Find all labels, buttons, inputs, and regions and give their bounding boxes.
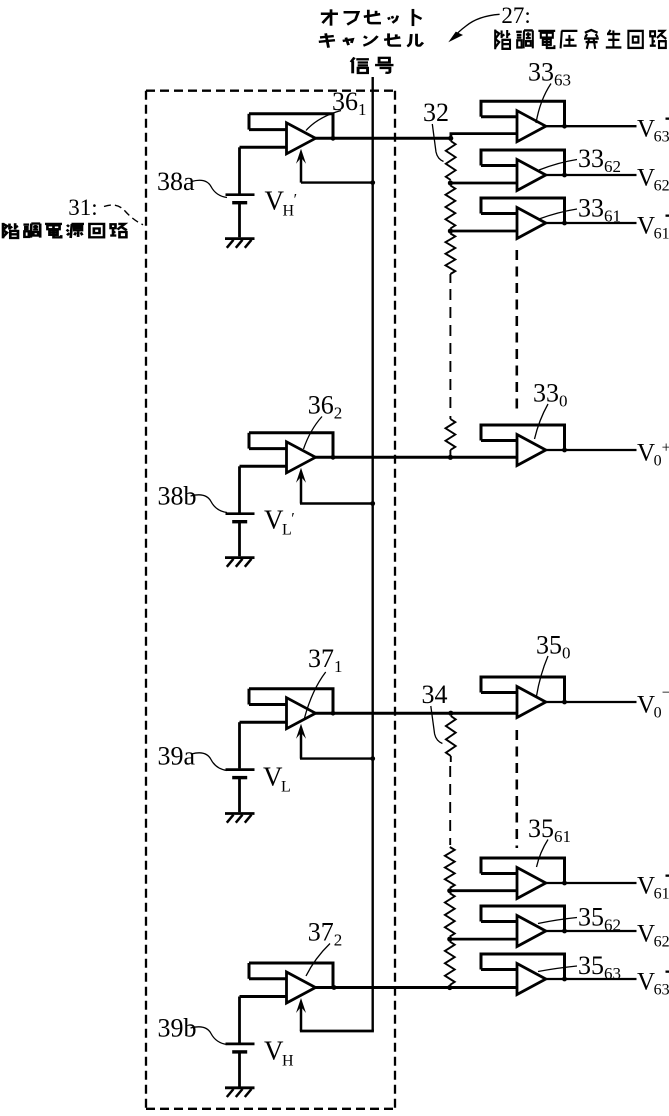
op-amp 37_2 feedback loop <box>249 963 335 988</box>
label: gradation power supply circuit heading <box>3 223 127 238</box>
wire: offset cancel feed to 37_2 (signal line end) <box>300 1030 374 1033</box>
svg-text:31:: 31: <box>68 195 97 220</box>
wire: buffer 33_62 output <box>546 174 637 176</box>
svg-text:38a: 38a <box>157 167 195 196</box>
resistor ladder 34: R below V0- <box>446 716 456 762</box>
svg-text:39a: 39a <box>158 742 196 771</box>
superscript stub at edge <box>666 875 669 877</box>
leader arrow from label 27 <box>448 14 499 42</box>
wire: buffer 35_61 output <box>546 882 637 884</box>
node: ladder 32 tap V61 <box>448 228 453 233</box>
wire: V_H' battery to op-amp input <box>240 147 287 193</box>
resistor ladder 34: R above V61- <box>445 847 455 888</box>
svg-text:34: 34 <box>422 680 448 709</box>
svg-text:27:: 27: <box>501 3 530 28</box>
node: buffer 33_61 feedback tap <box>562 221 567 226</box>
wire: buffer 35_62 output <box>546 930 637 932</box>
op-amp 37_1 triangle <box>287 698 316 729</box>
wire: offset cancel signal line <box>372 77 374 1031</box>
node: 37_2 feedback tap <box>332 985 337 990</box>
wire: ladder 32 tap to buffer 33_62 <box>450 182 517 185</box>
node: buffer 33_62 feedback tap <box>562 173 567 178</box>
buffer 35_62 triangle <box>517 916 546 947</box>
battery 39b (V_H) <box>226 1044 255 1087</box>
node: ladder 32 bottom on 36_2 output <box>448 455 453 460</box>
continuation dashes between 35_0 and 35_61 <box>515 730 518 848</box>
superscript stub at edge <box>666 215 669 217</box>
op-amp 36_2 feedback loop <box>249 433 335 458</box>
op-amp 36_1 triangle <box>287 123 316 154</box>
wire: V_H battery to op-amp input <box>240 997 287 1043</box>
wire: buffer 35_0 output <box>546 701 637 703</box>
leader 32 <box>432 124 443 162</box>
node: ladder 32 tap V62 <box>448 180 453 185</box>
wire: offset cancel feed to 37_1 <box>300 757 373 759</box>
wire: 36_1 output to ladder 32 <box>316 137 453 140</box>
wire: buffer 35_63 output <box>546 978 637 980</box>
svg-text:32: 32 <box>423 98 449 127</box>
resistor ladder 34: R (V62-V63) <box>445 942 455 985</box>
leader 35_63 <box>538 966 577 972</box>
leader 37_1 <box>305 672 326 718</box>
op-amp 36_1 offset-cancel arrow <box>296 149 306 183</box>
continuation dashes between 33_61 and 33_0 <box>515 250 518 410</box>
wire: ladder 32 tap to buffer 33_61 <box>450 230 517 233</box>
buffer 33_62 triangle <box>517 160 546 191</box>
ground (38b) <box>225 558 255 567</box>
buffer 33_63 feedback loop <box>480 101 567 126</box>
leader 33_0 <box>535 404 549 439</box>
op-amp 36_1 feedback loop <box>249 114 335 139</box>
ground (39b) <box>225 1088 255 1097</box>
wire: ladder 34 tap to buffer 35_61 <box>450 889 517 892</box>
leader 37_2 <box>306 944 330 977</box>
buffer 35_0 triangle <box>517 687 546 718</box>
superscript stub at edge <box>666 118 669 120</box>
node: buffer 33_63 feedback tap <box>562 124 567 129</box>
buffer 35_61 feedback loop <box>480 858 567 883</box>
op-amp 36_2 offset-cancel arrow <box>296 468 306 504</box>
leader 33_61 <box>539 209 577 219</box>
leader 35_61 <box>537 840 549 868</box>
node: 36_1 feedback tap <box>331 136 336 141</box>
leader 39b <box>191 1027 228 1045</box>
buffer 33_61 feedback loop <box>480 198 567 223</box>
leader 38b <box>191 495 228 513</box>
node: buffer 35_61 feedback tap <box>562 881 567 886</box>
node: 36_2 feedback tap <box>331 455 336 460</box>
buffer 33_0 feedback loop <box>480 425 567 450</box>
node: signal line junction (36_1) <box>370 180 375 185</box>
superscript stub at edge <box>666 971 669 973</box>
leader 33_62 <box>539 160 577 171</box>
node: buffer 35_0 feedback tap <box>562 700 567 705</box>
buffer 35_61 triangle <box>517 868 546 899</box>
leader 35_62 <box>538 918 577 924</box>
leader from label 31 to dashed box <box>104 205 143 225</box>
node: ladder 34 tap V62- <box>447 937 452 942</box>
resistor ladder 32: R below V61 <box>446 234 456 284</box>
node: buffer 35_63 feedback tap <box>562 977 567 982</box>
resistor ladder 32: R above V0+ <box>446 416 456 457</box>
buffer 33_0 triangle <box>517 435 546 466</box>
buffer 33_62 feedback loop <box>480 150 567 175</box>
wire: buffer 33_63 output <box>546 125 637 127</box>
wire: V_L' battery to op-amp input <box>240 466 287 512</box>
wire: V_L battery to op-amp input <box>240 722 287 768</box>
leader 38a <box>192 180 228 197</box>
op-amp 36_2 triangle <box>287 442 316 473</box>
resistor ladder 32: R top (V63-V62) <box>446 141 456 180</box>
wire: ladder 34 tap to buffer 35_62 <box>450 938 517 941</box>
node: ladder 34 bottom on 37_2 output <box>447 985 452 990</box>
wire: buffer 33_0 output <box>546 449 637 451</box>
buffer 35_0 feedback loop <box>480 677 567 702</box>
label: offset cancel line2 (kyanseru) <box>319 33 423 47</box>
ground (39a) <box>225 814 255 823</box>
dashed box: gradation power supply circuit 31 <box>146 91 395 1109</box>
battery 39a (V_L) <box>226 770 255 813</box>
buffer 33_63 triangle <box>517 111 546 142</box>
leader 33_63 <box>536 84 551 124</box>
node: buffer 35_62 feedback tap <box>562 929 567 934</box>
node: 37_1 feedback tap <box>331 711 336 716</box>
op-amp 37_2 triangle <box>287 972 316 1003</box>
buffer 33_61 triangle <box>517 208 546 239</box>
wire: offset cancel feed to 36_1 <box>301 181 373 183</box>
node: ladder 34 top on 37_1 output <box>448 711 453 716</box>
wire: 36_2 output to buffer 33_0 input <box>316 456 518 459</box>
label: gradation voltage generation circuit heading <box>495 30 666 50</box>
ground (38a) <box>225 239 255 248</box>
wire: 37_2 output to buffer 35_63 input <box>316 986 518 989</box>
battery 38a (V_H') <box>226 195 255 238</box>
op-amp 37_1 offset-cancel arrow <box>296 724 306 759</box>
resistor ladder 32: R (V62-V61) <box>446 186 456 229</box>
node: buffer 33_0 feedback tap <box>562 448 567 453</box>
leader 35_0 <box>537 656 549 696</box>
leader 36_2 <box>304 417 323 450</box>
label: offset cancel line1 (ofusetto) <box>321 9 422 26</box>
wire: buffer 33_61 output <box>546 222 637 224</box>
buffer 35_62 feedback loop <box>480 906 567 931</box>
node: ladder 34 tap V61- <box>447 888 452 893</box>
op-amp 37_1 feedback loop <box>249 689 335 714</box>
resistor ladder 34: R (V61-V62) <box>445 893 455 936</box>
wire: offset cancel feed to 36_2 <box>300 502 373 504</box>
battery 38b (V_L') <box>226 514 255 557</box>
leader 39a <box>192 753 228 771</box>
node: signal line junction (36_2) <box>370 501 375 506</box>
wire: ladder 32 continuation (dashed) <box>449 289 451 414</box>
buffer 35_63 feedback loop <box>480 954 567 979</box>
node: signal line junction (37_1) <box>370 756 375 761</box>
node: ladder 32 top on 36_1 output <box>448 136 453 141</box>
buffer 35_63 triangle <box>517 964 546 995</box>
label: offset cancel line3 (shingou) <box>351 57 394 73</box>
leader 36_1 <box>306 111 341 131</box>
leader 34 <box>431 706 443 744</box>
wire: jog from ladder 32 top to buffer 33_63 input <box>451 134 517 139</box>
wire: 37_1 output to buffer 35_0 input <box>316 712 518 715</box>
wire: ladder 34 continuation (dashed) <box>449 766 451 845</box>
op-amp 37_2 offset-cancel arrow <box>296 998 306 1031</box>
